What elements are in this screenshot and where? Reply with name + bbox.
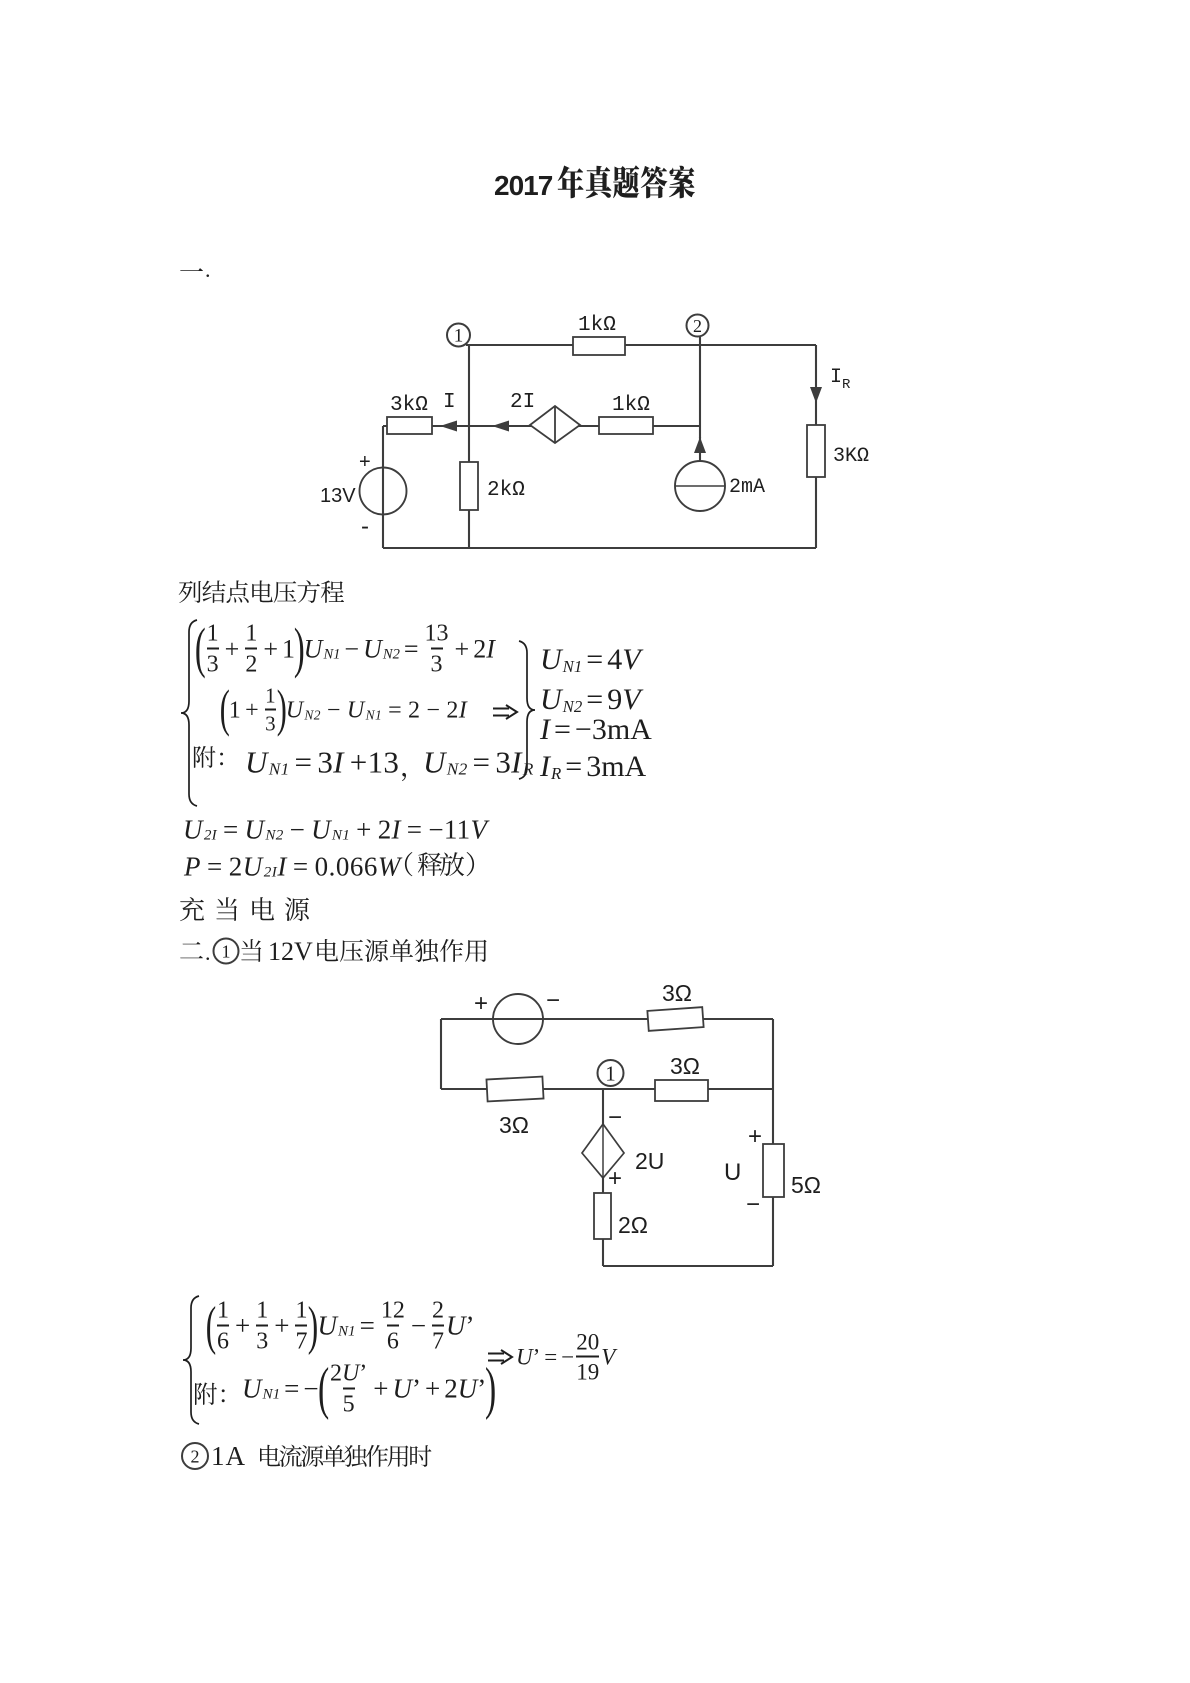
wire 13V left c1 <box>382 426 384 548</box>
node 1 label c2 <box>598 1060 624 1086</box>
resistor 3K right c1 <box>807 425 825 477</box>
wire top c2 <box>441 1018 773 1020</box>
resistor 3ohm left c2 <box>486 1077 543 1102</box>
arrow 2I left <box>492 421 509 432</box>
sec2 rest <box>317 939 487 962</box>
svg-text:-: - <box>361 513 369 540</box>
svg-text:3Ω: 3Ω <box>670 1053 700 1079</box>
equation U2I <box>183 817 487 844</box>
svg-text:2mA: 2mA <box>729 476 765 499</box>
wire node1 vert c1 <box>468 345 470 548</box>
equation P <box>184 854 401 881</box>
wire middle c1 <box>383 425 700 427</box>
svg-text:1: 1 <box>222 941 231 961</box>
implies eq2 <box>488 1350 512 1364</box>
svg-text:2: 2 <box>693 316 702 336</box>
resistor 2ohm c2 <box>594 1193 611 1239</box>
equation aux1a <box>245 747 399 778</box>
svg-text:1kΩ: 1kΩ <box>612 394 650 417</box>
wire node1 down c2 <box>602 1089 604 1124</box>
result U prime <box>516 1331 615 1384</box>
dependent source diamond c2 <box>582 1124 624 1178</box>
svg-text:3KΩ: 3KΩ <box>833 445 869 468</box>
svg-text:.: . <box>205 257 211 282</box>
result UN2 <box>540 685 641 715</box>
svg-text:2017: 2017 <box>494 170 553 201</box>
source 12V c2 <box>493 994 543 1044</box>
wire left c2 <box>440 1019 442 1089</box>
fu label eq1 <box>194 746 223 768</box>
equation node1 eq <box>196 622 495 677</box>
shifang shi <box>418 852 442 876</box>
wire right vert c1 <box>815 345 817 548</box>
svg-text:2U: 2U <box>635 1148 664 1174</box>
svg-text:−: − <box>546 987 560 1014</box>
arrow IR down <box>810 387 822 403</box>
dependent source diamond c1 <box>530 406 580 443</box>
svg-text:1kΩ: 1kΩ <box>578 314 616 337</box>
svg-text:1A: 1A <box>211 1441 246 1471</box>
comma eq1 line3 <box>402 773 406 781</box>
resistor 3k left c1 <box>387 417 432 434</box>
wire right c2 <box>772 1019 774 1266</box>
svg-text:3Ω: 3Ω <box>662 980 692 1006</box>
arrow I left <box>440 421 457 432</box>
implies eq1 <box>493 705 517 719</box>
shifang close paren <box>467 852 475 876</box>
resistor 2k c1 <box>460 462 478 510</box>
brace eq1 left <box>181 620 197 806</box>
resistor 1k mid c1 <box>599 417 653 434</box>
resistor 5ohm c2 <box>763 1144 784 1197</box>
svg-text:1: 1 <box>454 326 464 347</box>
resistor 1k top c1 <box>573 337 625 355</box>
svg-text:.: . <box>205 940 211 965</box>
svg-text:I: I <box>830 366 842 389</box>
source 13V c1 <box>360 468 407 515</box>
svg-text:+: + <box>474 990 488 1017</box>
shifang fang <box>440 852 464 876</box>
svg-text:1: 1 <box>605 1061 616 1085</box>
svg-text:2: 2 <box>191 1446 200 1466</box>
shifang open paren <box>405 852 413 876</box>
wire top c1 <box>466 344 816 346</box>
svg-text:U: U <box>724 1159 741 1186</box>
circled 1 inline <box>214 939 239 964</box>
equation aux2 <box>242 1362 496 1417</box>
svg-text:2Ω: 2Ω <box>618 1212 648 1238</box>
equation node1 eq block2 <box>207 1299 475 1354</box>
result UN1 <box>540 645 641 675</box>
2mA arrow shaft <box>699 437 701 461</box>
brace eq2 left <box>183 1296 199 1424</box>
sec 1 marker <box>180 268 203 271</box>
resistor 3ohm right c2 <box>655 1080 708 1101</box>
heading lie jie dian <box>179 580 344 603</box>
fu label eq2 <box>195 1383 225 1406</box>
arrow 2mA up <box>694 437 706 453</box>
wire 2ohm down c2 <box>602 1178 604 1266</box>
svg-text:+: + <box>608 1165 622 1192</box>
result IR <box>540 752 646 782</box>
2mA diameter <box>675 485 725 487</box>
title cjk <box>558 165 695 198</box>
svg-text:−: − <box>608 1104 622 1131</box>
wire mid c2 <box>441 1088 773 1090</box>
svg-text:13V: 13V <box>320 485 356 507</box>
sec 2 er <box>180 942 203 958</box>
svg-text:3Ω: 3Ω <box>499 1112 529 1138</box>
equation node2 eq <box>221 686 467 735</box>
svg-text:R: R <box>842 377 851 393</box>
wire bottom c1 <box>383 547 816 549</box>
resistor 3ohm top c2 <box>647 1007 703 1031</box>
sec2 dang <box>241 939 261 962</box>
source 2mA c1 <box>675 461 725 511</box>
equation aux1b <box>423 747 534 778</box>
brace eq1 right <box>519 641 535 779</box>
svg-text:+: + <box>748 1123 762 1150</box>
svg-text:2I: 2I <box>510 391 535 414</box>
svg-text:5Ω: 5Ω <box>791 1172 821 1198</box>
svg-text:−: − <box>746 1191 760 1218</box>
wire bottom c2 <box>603 1265 773 1267</box>
chong dang dian yuan <box>180 897 309 921</box>
svg-text:2kΩ: 2kΩ <box>487 479 525 502</box>
svg-text:12V: 12V <box>268 937 313 966</box>
node 2 label c1 <box>687 315 709 337</box>
svg-text:I: I <box>443 391 456 414</box>
svg-text:+: + <box>359 451 371 473</box>
wire node2 vert c1 <box>699 336 701 438</box>
circled 2 inline <box>182 1443 208 1469</box>
node 1 label c1 <box>447 324 470 347</box>
sec3 rest <box>260 1445 432 1467</box>
svg-text:3kΩ: 3kΩ <box>390 394 428 417</box>
result I <box>540 715 652 745</box>
